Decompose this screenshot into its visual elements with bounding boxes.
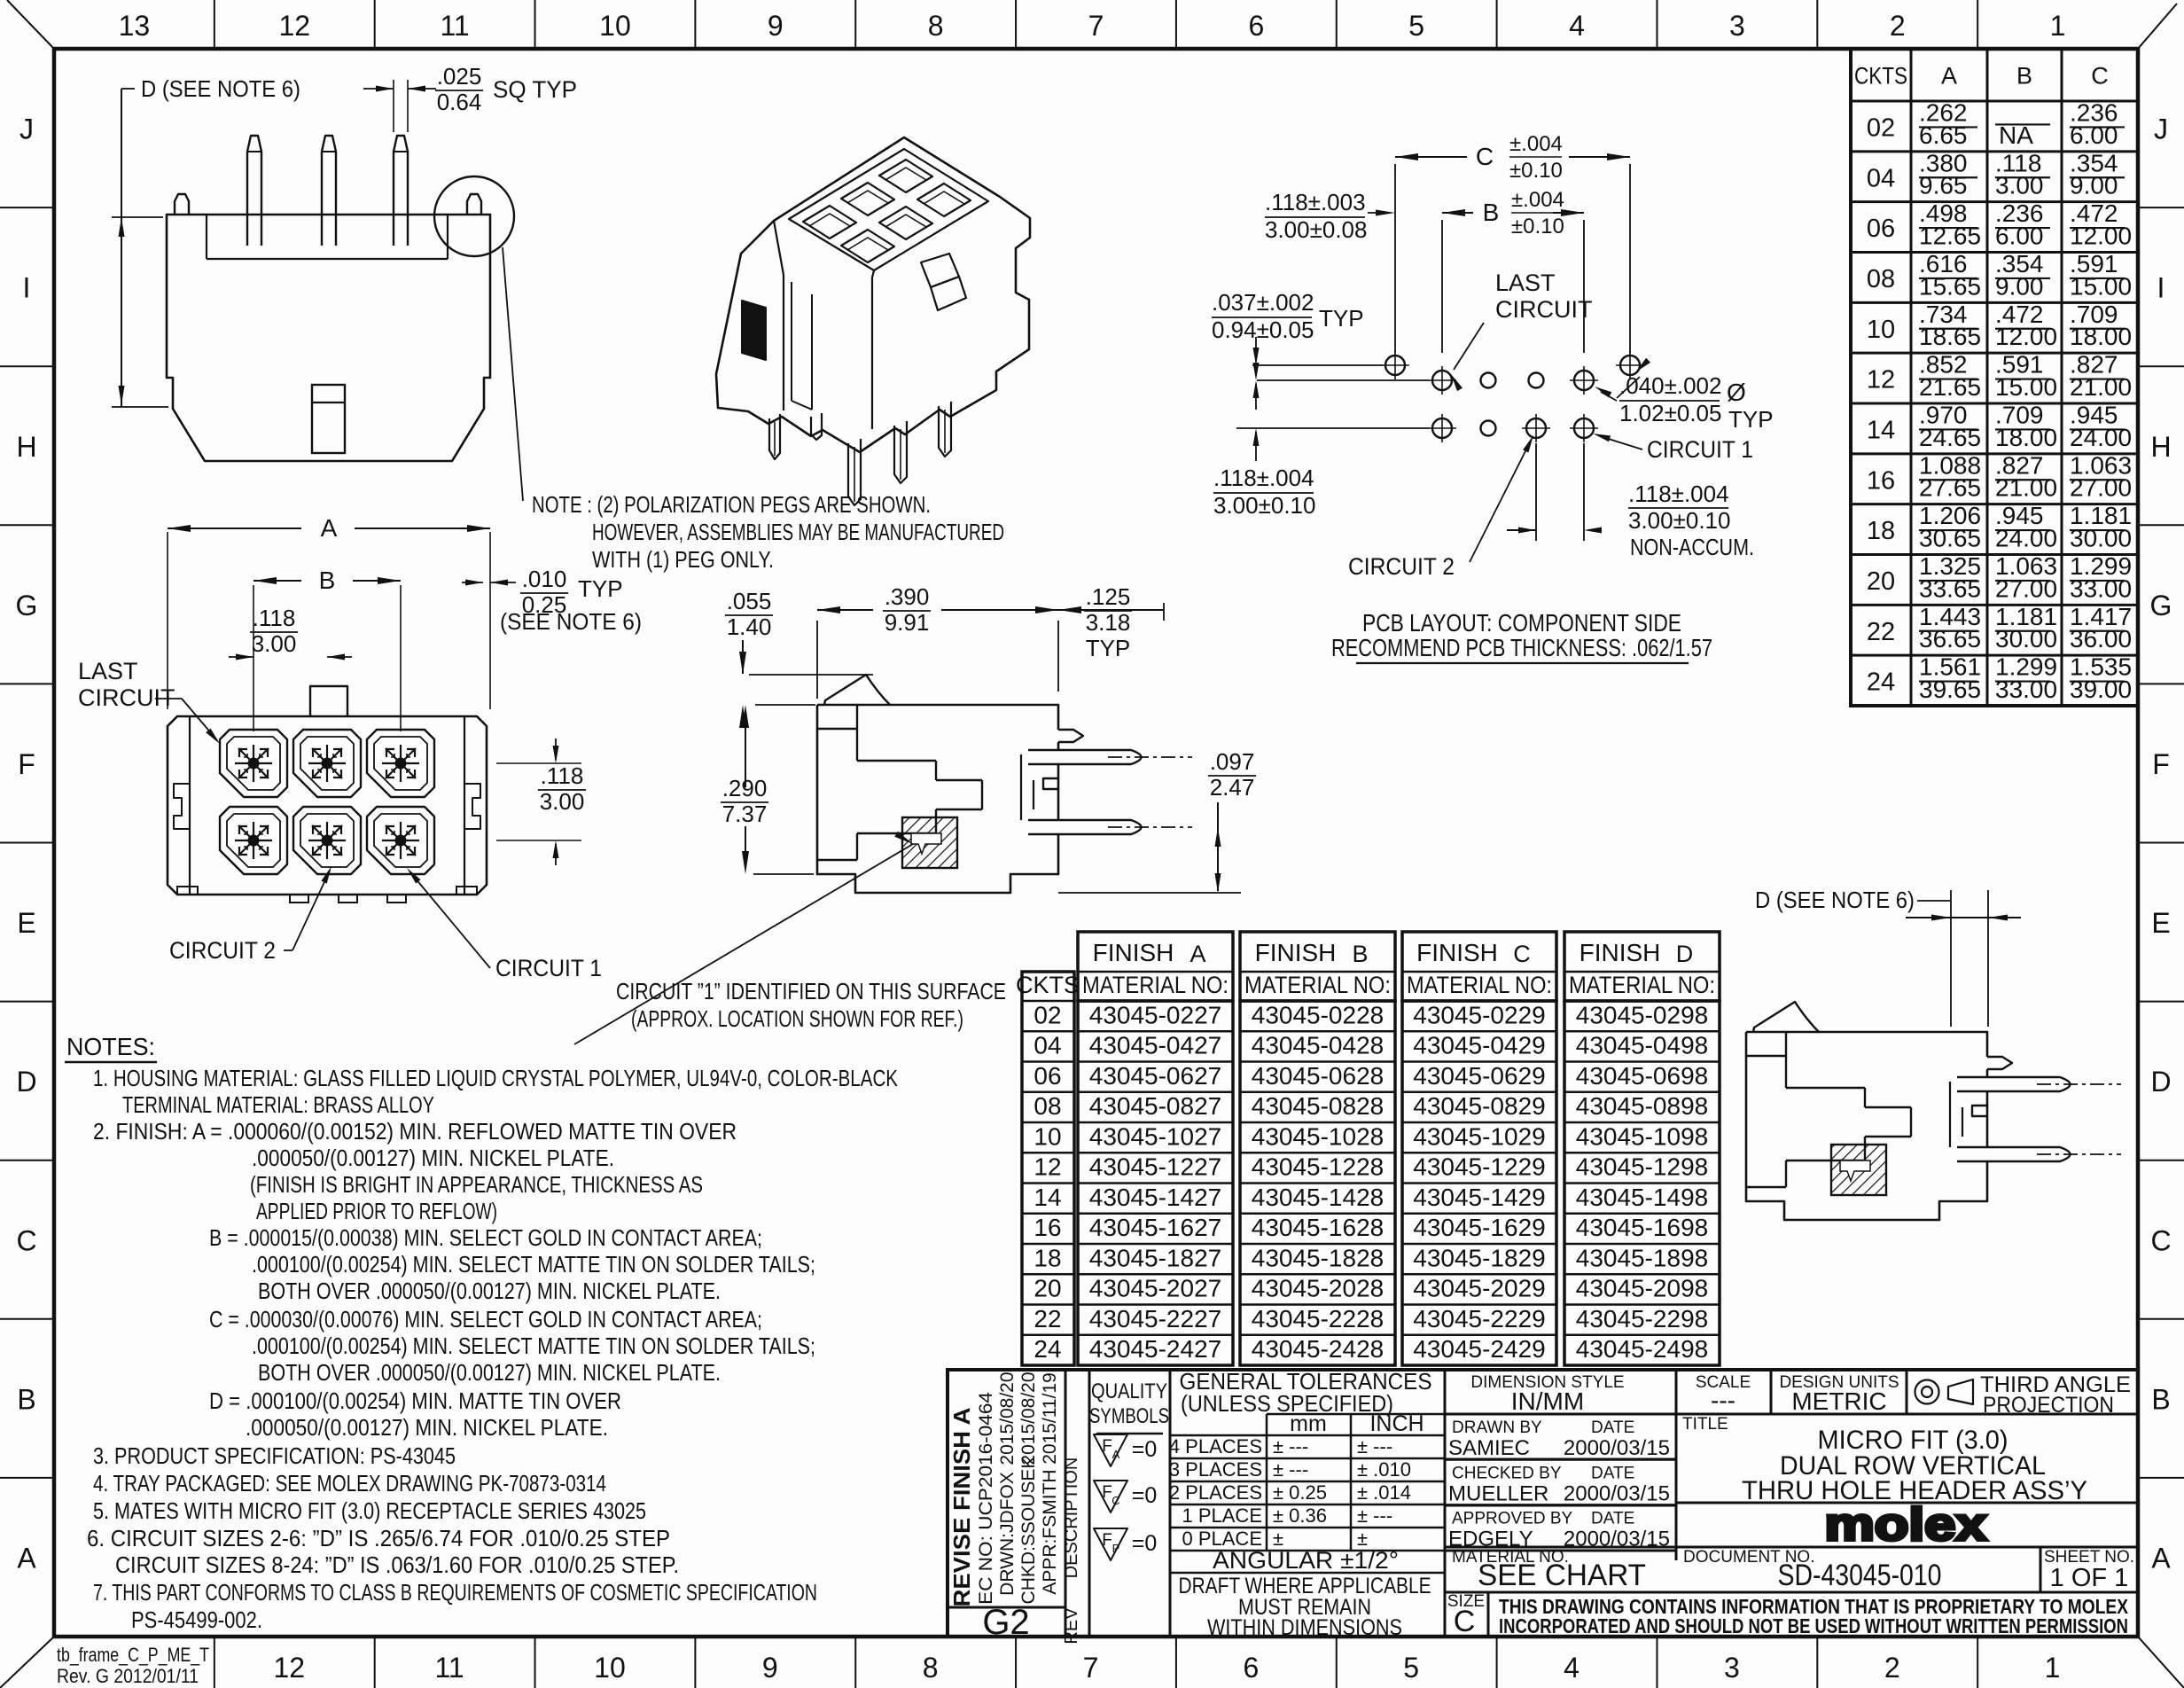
side view hatched circuit-1 block: [1831, 1145, 1886, 1195]
svg-text:± ---: ± ---: [1273, 1435, 1308, 1457]
svg-text:.118±.004: .118±.004: [1213, 465, 1314, 491]
dim B: [1441, 220, 1443, 353]
side view top peg: [1987, 1057, 2012, 1069]
svg-text:30.65: 30.65: [1919, 525, 1981, 552]
svg-text:.097: .097: [1210, 748, 1255, 775]
svg-text:3 PLACES: 3 PLACES: [1169, 1458, 1262, 1481]
svg-text:MATERIAL NO:: MATERIAL NO:: [1244, 972, 1391, 998]
svg-text:20: 20: [1867, 567, 1895, 596]
face view housing: [78, 514, 642, 981]
svg-text:Rev. G 2012/01/11: Rev. G 2012/01/11: [57, 1665, 199, 1687]
svg-text:J: J: [19, 113, 34, 145]
svg-text:SQ TYP: SQ TYP: [493, 76, 577, 103]
svg-text:D (SEE NOTE 6): D (SEE NOTE 6): [1755, 887, 1915, 913]
svg-text:B: B: [17, 1383, 35, 1415]
svg-text:C: C: [1454, 1605, 1476, 1638]
svg-text:6.00: 6.00: [1995, 223, 2044, 250]
svg-text:06: 06: [1867, 215, 1895, 243]
svg-text:.118: .118: [541, 762, 584, 789]
svg-text:D (SEE NOTE 6): D (SEE NOTE 6): [141, 75, 300, 102]
svg-text:1. HOUSING MATERIAL: GLASS F: 1. HOUSING MATERIAL: GLASS FILLED LIQUID…: [93, 1065, 899, 1091]
iso circuit-1 marking block: [742, 301, 766, 360]
svg-text:C: C: [1476, 143, 1494, 170]
svg-text:43045-0298: 43045-0298: [1576, 1001, 1708, 1028]
iso right wall polarization rib: [921, 254, 959, 287]
face view bottom pegs: [290, 895, 308, 903]
svg-text:I: I: [2157, 272, 2165, 304]
svg-text:CIRCUIT SIZES 8-24: ”D” IS .06: CIRCUIT SIZES 8-24: ”D” IS .063/1.60 FOR…: [115, 1551, 679, 1578]
svg-text:43045-2498: 43045-2498: [1576, 1335, 1708, 1363]
svg-text:E: E: [17, 907, 35, 939]
svg-text:2015/11/19: 2015/11/19: [1040, 1372, 1060, 1465]
svg-text:12.00: 12.00: [1995, 323, 2057, 350]
svg-text:C: C: [2091, 63, 2109, 90]
svg-text:CKTS: CKTS: [1854, 63, 1907, 90]
front view center slot: [312, 385, 345, 453]
svg-text:.390: .390: [885, 583, 930, 610]
svg-text:1: 1: [2050, 10, 2066, 42]
svg-text:43045-1098: 43045-1098: [1576, 1122, 1708, 1150]
svg-text:G: G: [16, 590, 38, 621]
svg-text:3.00: 3.00: [1995, 172, 2044, 199]
iso cavity 2,0: [803, 206, 856, 238]
svg-text:43045-1698: 43045-1698: [1576, 1214, 1708, 1241]
svg-text:43045-0228: 43045-0228: [1252, 1001, 1384, 1028]
side view lower pin: [1028, 820, 1142, 834]
pin holes row 1: [1432, 371, 1452, 390]
svg-text:LAST: LAST: [1495, 270, 1556, 296]
svg-text:INCORPORATED AND SHOULD NOT BE: INCORPORATED AND SHOULD NOT BE USED WITH…: [1499, 1614, 2128, 1637]
CKTS A/B/C dimension table: [1851, 49, 2138, 706]
svg-text:A: A: [17, 1542, 36, 1574]
svg-text:± .014: ± .014: [1357, 1481, 1411, 1504]
svg-text:43045-1298: 43045-1298: [1576, 1153, 1708, 1181]
svg-text:CIRCUIT 1: CIRCUIT 1: [495, 955, 602, 981]
svg-text:7: 7: [1083, 1652, 1099, 1684]
svg-text:CIRCUIT ”1” IDENTIFIED ON THIS: CIRCUIT ”1” IDENTIFIED ON THIS SURFACE: [616, 978, 1006, 1004]
svg-text:CHECKED BY: CHECKED BY: [1452, 1464, 1562, 1482]
svg-text:27.00: 27.00: [1995, 574, 2057, 602]
svg-text:1: 1: [2045, 1652, 2061, 1684]
svg-text:CIRCUIT 1: CIRCUIT 1: [1647, 436, 1753, 463]
front view left polarization peg: [175, 194, 189, 215]
svg-text:REV: REV: [1062, 1607, 1081, 1645]
svg-text:.040±.002: .040±.002: [1619, 372, 1721, 399]
svg-text:43045-1029: 43045-1029: [1413, 1122, 1545, 1150]
front view right peg in detail circle: [467, 194, 481, 215]
svg-text:3: 3: [1729, 10, 1745, 42]
svg-text:APPLIED PRIOR TO REFLOW): APPLIED PRIOR TO REFLOW): [256, 1198, 497, 1224]
svg-text:6.00: 6.00: [2070, 121, 2118, 149]
face view dim A: [167, 532, 168, 709]
svg-text:MUELLER: MUELLER: [1448, 1481, 1548, 1505]
svg-text:D: D: [16, 1066, 36, 1098]
svg-text:21.65: 21.65: [1919, 373, 1981, 401]
svg-text:43045-0227: 43045-0227: [1089, 1001, 1221, 1028]
svg-text:6: 6: [1248, 10, 1264, 42]
side view upper pin: [1957, 1077, 2071, 1091]
svg-text:PCB LAYOUT: COMPONENT SIDE: PCB LAYOUT: COMPONENT SIDE: [1362, 609, 1681, 637]
svg-text:08: 08: [1033, 1092, 1061, 1120]
svg-text:SAMIEC: SAMIEC: [1448, 1436, 1530, 1460]
svg-text:2000/03/15: 2000/03/15: [1564, 1481, 1670, 1505]
svg-text:A: A: [1112, 1448, 1120, 1461]
svg-text:08: 08: [1867, 265, 1895, 293]
svg-text:9.91: 9.91: [885, 609, 930, 636]
side view interior lines: [817, 728, 857, 730]
svg-text:43045-1028: 43045-1028: [1252, 1122, 1384, 1150]
side view top peg: [1058, 730, 1083, 742]
svg-text:B: B: [319, 567, 336, 594]
svg-text:LAST: LAST: [78, 658, 138, 684]
svg-text:RECOMMEND PCB THICKNESS: .062/: RECOMMEND PCB THICKNESS: .062/1.57: [1331, 634, 1712, 661]
svg-text:±.004: ±.004: [1511, 188, 1564, 212]
svg-text:4: 4: [1569, 10, 1585, 42]
svg-text:18: 18: [1867, 517, 1895, 545]
iso body silhouette: [716, 137, 1030, 452]
svg-text:43045-1228: 43045-1228: [1252, 1153, 1384, 1181]
svg-text:2. FINISH: A = .000060/(0.0: 2. FINISH: A = .000060/(0.00152) MIN. RE…: [93, 1118, 737, 1145]
svg-text:1.40: 1.40: [727, 613, 772, 640]
svg-text:± ---: ± ---: [1273, 1458, 1308, 1481]
svg-text:12: 12: [278, 10, 310, 42]
svg-text:.118±.004: .118±.004: [1628, 481, 1729, 507]
svg-text:43045-1627: 43045-1627: [1089, 1214, 1221, 1241]
svg-text:33.65: 33.65: [1919, 574, 1981, 602]
svg-text:24.00: 24.00: [1995, 525, 2057, 552]
svg-text:27.00: 27.00: [2070, 474, 2132, 502]
svg-text:9: 9: [768, 10, 784, 42]
svg-text:TYP: TYP: [1728, 406, 1774, 433]
iso cavity 2,1: [841, 230, 894, 262]
svg-text:3.00±0.10: 3.00±0.10: [1628, 507, 1730, 534]
svg-text:18.00: 18.00: [2070, 323, 2132, 350]
svg-text:TITLE: TITLE: [1682, 1415, 1728, 1434]
svg-text:43045-2027: 43045-2027: [1089, 1275, 1221, 1302]
cavity at 369,948: [293, 807, 361, 874]
svg-text:43045-0629: 43045-0629: [1413, 1062, 1545, 1090]
iso top face inner rim: [789, 149, 988, 270]
svg-text:12: 12: [1033, 1153, 1061, 1181]
svg-text:12.65: 12.65: [1919, 223, 1981, 250]
svg-text:43045-0427: 43045-0427: [1089, 1032, 1221, 1059]
svg-text:.125: .125: [1086, 583, 1131, 610]
svg-text:9: 9: [762, 1652, 778, 1684]
svg-text:E: E: [2151, 907, 2170, 939]
svg-text:DRAWN BY: DRAWN BY: [1452, 1418, 1542, 1437]
svg-text:FINISH: FINISH: [1579, 939, 1661, 966]
svg-text:43045-0698: 43045-0698: [1576, 1062, 1708, 1090]
svg-text:G: G: [2150, 590, 2172, 621]
svg-text:43045-0829: 43045-0829: [1413, 1092, 1545, 1120]
side view lower pin: [1957, 1147, 2071, 1161]
svg-text:±0.10: ±0.10: [1509, 159, 1563, 183]
svg-text:METRIC: METRIC: [1791, 1387, 1886, 1415]
svg-text:3.00: 3.00: [540, 788, 585, 815]
svg-text:APPR:FSMITH: APPR:FSMITH: [1040, 1469, 1060, 1594]
svg-text:REVISE FINISH A: REVISE FINISH A: [948, 1407, 975, 1606]
svg-text:43045-1427: 43045-1427: [1089, 1184, 1221, 1211]
svg-text:8: 8: [923, 1652, 939, 1684]
svg-text:7: 7: [1088, 10, 1104, 42]
iso cavity 0,0: [879, 160, 932, 192]
svg-text:36.00: 36.00: [2070, 625, 2132, 653]
svg-text:15.00: 15.00: [2070, 272, 2132, 300]
svg-text:10: 10: [1033, 1122, 1061, 1150]
svg-text:.118±.003: .118±.003: [1265, 189, 1366, 215]
svg-text:± 0.36: ± 0.36: [1273, 1504, 1327, 1527]
svg-text:2: 2: [1884, 1652, 1900, 1684]
svg-text:22: 22: [1867, 618, 1895, 646]
svg-text:3.00: 3.00: [252, 630, 297, 657]
svg-text:3.18: 3.18: [1086, 609, 1131, 636]
svg-text:24: 24: [1867, 668, 1895, 697]
svg-text:ANGULAR ±1/2°: ANGULAR ±1/2°: [1213, 1547, 1399, 1574]
svg-text:DATE: DATE: [1591, 1464, 1634, 1482]
svg-text:43045-2227: 43045-2227: [1089, 1305, 1221, 1332]
dim C: [1394, 164, 1396, 353]
svg-text:15.65: 15.65: [1919, 272, 1981, 300]
svg-text:43045-2098: 43045-2098: [1576, 1275, 1708, 1302]
svg-text:.025: .025: [437, 63, 482, 90]
svg-text:DATE: DATE: [1591, 1418, 1634, 1437]
svg-text:MATERIAL NO:: MATERIAL NO:: [1082, 972, 1228, 998]
svg-text:B: B: [2016, 63, 2032, 90]
right side view with D dimension: [1746, 887, 2121, 1220]
svg-text:0.64: 0.64: [437, 89, 482, 115]
svg-text:43045-1229: 43045-1229: [1413, 1153, 1545, 1181]
svg-text:FINISH: FINISH: [1093, 939, 1174, 966]
svg-text:2 PLACES: 2 PLACES: [1169, 1481, 1262, 1504]
svg-text:TYP: TYP: [1086, 635, 1131, 661]
svg-text:C: C: [1111, 1494, 1119, 1507]
svg-text:10: 10: [1867, 316, 1895, 344]
svg-text:F: F: [18, 748, 35, 780]
svg-text:± 0.25: ± 0.25: [1273, 1481, 1327, 1504]
svg-text:MATERIAL NO:: MATERIAL NO:: [1407, 972, 1552, 998]
svg-text:A: A: [321, 514, 338, 542]
svg-text:---: ---: [1711, 1387, 1735, 1414]
notes block: [65, 1033, 899, 1633]
svg-text:D: D: [2150, 1066, 2171, 1098]
svg-text:D = .000100/(0.00254) MIN. MAT: D = .000100/(0.00254) MIN. MATTE TIN OVE…: [209, 1387, 621, 1414]
svg-text:43045-1629: 43045-1629: [1413, 1214, 1545, 1241]
title block outline: [948, 1370, 2138, 1645]
svg-text:11: 11: [435, 1652, 464, 1684]
svg-text:(APPROX. LOCATION SHOWN FOR RE: (APPROX. LOCATION SHOWN FOR REF.): [631, 1005, 963, 1032]
svg-text:18.65: 18.65: [1919, 323, 1981, 350]
FINISH A/B/C/D material number tables: [1016, 932, 1720, 1365]
front view pins: [247, 136, 261, 246]
iso front latch arm: [792, 282, 812, 410]
svg-text:CIRCUIT: CIRCUIT: [1495, 296, 1593, 323]
svg-text:J: J: [2154, 113, 2168, 145]
svg-text:2.47: 2.47: [1210, 774, 1255, 801]
svg-text:2015/08/20: 2015/08/20: [1018, 1371, 1039, 1465]
svg-text:4: 4: [1564, 1652, 1579, 1684]
svg-text:WITHIN DIMENSIONS: WITHIN DIMENSIONS: [1207, 1615, 1402, 1640]
svg-text:43045-1498: 43045-1498: [1576, 1184, 1708, 1211]
svg-text:± ---: ± ---: [1357, 1435, 1392, 1457]
svg-text:43045-0229: 43045-0229: [1413, 1001, 1545, 1028]
svg-text:± ---: ± ---: [1357, 1504, 1392, 1527]
svg-text:F: F: [2152, 748, 2170, 780]
cavity at 369,861: [293, 730, 361, 797]
leader circuit 1 surface note: [574, 844, 913, 1044]
svg-text:39.00: 39.00: [2070, 676, 2132, 703]
face view dim B: [253, 585, 254, 731]
svg-text:39.65: 39.65: [1919, 676, 1981, 703]
svg-text:6: 6: [1243, 1652, 1259, 1684]
svg-text:NOTES:: NOTES:: [66, 1033, 155, 1060]
svg-text:5: 5: [1403, 1652, 1419, 1684]
svg-text:21.00: 21.00: [1995, 474, 2057, 502]
svg-text:06: 06: [1033, 1062, 1061, 1090]
svg-text:14: 14: [1867, 416, 1895, 444]
svg-text:molex: molex: [1825, 1499, 1987, 1551]
svg-text:11: 11: [441, 10, 470, 42]
svg-text:3.00±0.08: 3.00±0.08: [1265, 216, 1367, 243]
svg-text:=0: =0: [1132, 1483, 1158, 1508]
svg-text:36.65: 36.65: [1919, 625, 1981, 653]
svg-text:MATERIAL NO:: MATERIAL NO:: [1569, 972, 1715, 998]
svg-text:18.00: 18.00: [1995, 424, 2057, 451]
svg-text:22: 22: [1033, 1305, 1061, 1332]
svg-text:=0: =0: [1132, 1437, 1158, 1462]
svg-text:20: 20: [1033, 1275, 1061, 1302]
svg-text:43045-0428: 43045-0428: [1252, 1032, 1384, 1059]
svg-text:43045-2028: 43045-2028: [1252, 1275, 1384, 1302]
svg-text:0.94±0.05: 0.94±0.05: [1212, 316, 1314, 343]
svg-text:4. TRAY PACKAGED: SEE MOLEX: 4. TRAY PACKAGED: SEE MOLEX DRAWING PK-7…: [93, 1470, 606, 1497]
side view housing outline: [817, 705, 1058, 893]
svg-text:2000/03/15: 2000/03/15: [1564, 1436, 1670, 1460]
svg-text:±0.10: ±0.10: [1511, 215, 1564, 238]
side view latch ramp: [1753, 1002, 1819, 1032]
side view latch ramp: [824, 675, 890, 705]
svg-text:A: A: [1189, 941, 1205, 967]
svg-text:43045-2428: 43045-2428: [1252, 1335, 1384, 1363]
svg-text:C: C: [1513, 941, 1531, 967]
svg-text:A: A: [1941, 63, 1957, 90]
svg-text:DATE: DATE: [1591, 1510, 1634, 1528]
drawn/checked/approved + dimension style: [1445, 1370, 2138, 1560]
svg-text:EC NO: UCP2016-0464: EC NO: UCP2016-0464: [976, 1392, 996, 1605]
svg-text:H: H: [2150, 431, 2171, 463]
svg-text:QUALITY: QUALITY: [1091, 1379, 1167, 1403]
svg-text:02: 02: [1867, 113, 1895, 142]
svg-text:1.02±0.05: 1.02±0.05: [1619, 400, 1721, 426]
pin holes row 2: [1432, 418, 1452, 438]
svg-text:16: 16: [1033, 1214, 1061, 1241]
svg-text:TYP: TYP: [578, 575, 623, 602]
section view (middle): [574, 583, 1256, 1044]
svg-text:43045-2229: 43045-2229: [1413, 1305, 1545, 1332]
polarization peg holes: [1385, 356, 1405, 375]
cavity at 452,948: [367, 807, 434, 874]
side view interior lines: [1746, 1055, 1786, 1057]
svg-text:3.00±0.10: 3.00±0.10: [1213, 492, 1315, 519]
svg-text:F: F: [1102, 1437, 1112, 1456]
svg-text:43045-1429: 43045-1429: [1413, 1184, 1545, 1211]
svg-text:4 PLACES: 4 PLACES: [1169, 1435, 1262, 1457]
svg-text:INCH: INCH: [1369, 1411, 1423, 1436]
svg-text:P: P: [1112, 1542, 1120, 1555]
svg-text:D: D: [1676, 941, 1694, 967]
svg-text:12: 12: [273, 1652, 305, 1684]
iso face edges: [783, 275, 784, 410]
face view top latch tab: [310, 686, 347, 716]
svg-text:A: A: [2151, 1542, 2171, 1574]
svg-text:.000100/(0.00254) MIN. SELECT: .000100/(0.00254) MIN. SELECT MATTE TIN …: [252, 1251, 815, 1278]
svg-text:SYMBOLS: SYMBOLS: [1089, 1404, 1169, 1428]
svg-text:43045-1628: 43045-1628: [1252, 1214, 1384, 1241]
svg-text:PROJECTION: PROJECTION: [1983, 1393, 2114, 1418]
svg-text:43045-0498: 43045-0498: [1576, 1032, 1708, 1059]
svg-text:.037±.002: .037±.002: [1212, 289, 1314, 316]
svg-text:04: 04: [1033, 1032, 1061, 1059]
svg-text:CIRCUIT: CIRCUIT: [78, 684, 175, 711]
svg-text:02: 02: [1033, 1001, 1061, 1028]
svg-text:NA: NA: [1999, 121, 2033, 149]
svg-text:18: 18: [1033, 1244, 1061, 1271]
svg-text:43045-0898: 43045-0898: [1576, 1092, 1708, 1120]
front view inner shelf: [206, 215, 207, 259]
svg-text:30.00: 30.00: [2070, 525, 2132, 552]
general tolerances table: [1169, 1368, 1445, 1640]
svg-text:SD-43045-010: SD-43045-010: [1778, 1559, 1942, 1592]
svg-text:SEE CHART: SEE CHART: [1478, 1559, 1646, 1592]
title and molex logo: [1676, 1415, 2138, 1551]
leader to polarization note: [503, 247, 523, 501]
svg-text:Ø: Ø: [1727, 379, 1746, 406]
front view housing (top-left): [112, 63, 1004, 573]
svg-text:16: 16: [1867, 466, 1895, 495]
svg-text:± .010: ± .010: [1357, 1458, 1411, 1481]
svg-text:WITH (1) PEG ONLY.: WITH (1) PEG ONLY.: [592, 546, 774, 573]
svg-text:9.00: 9.00: [2070, 172, 2118, 199]
svg-text:TERMINAL MATERIAL: BRASS ALLO: TERMINAL MATERIAL: BRASS ALLOY: [122, 1091, 434, 1118]
svg-text:CIRCUIT 2: CIRCUIT 2: [169, 937, 276, 964]
svg-text:5. MATES WITH MICRO FIT (3.0): 5. MATES WITH MICRO FIT (3.0) RECEPTACLE…: [93, 1497, 646, 1524]
size C / proprietary note: [1445, 1592, 2138, 1638]
svg-text:tb_frame_C_P_ME_T: tb_frame_C_P_ME_T: [57, 1644, 209, 1666]
svg-text:I: I: [23, 272, 31, 304]
svg-text:43045-0429: 43045-0429: [1413, 1032, 1545, 1059]
svg-text:CHKD:SSOUSEK: CHKD:SSOUSEK: [1018, 1457, 1039, 1605]
svg-text:43045-1828: 43045-1828: [1252, 1244, 1384, 1271]
iso pins: [939, 402, 951, 457]
svg-text:15.00: 15.00: [1995, 373, 2057, 401]
cavity at 452,861: [367, 730, 434, 797]
cavity at 286,948: [220, 807, 287, 874]
svg-text:24: 24: [1033, 1335, 1061, 1363]
svg-text:24.65: 24.65: [1919, 424, 1981, 451]
svg-text:F: F: [1102, 1483, 1112, 1502]
svg-text:DRWN:JDFOX: DRWN:JDFOX: [997, 1472, 1018, 1596]
svg-text:24.00: 24.00: [2070, 424, 2132, 451]
svg-text:DESCRIPTION: DESCRIPTION: [1062, 1457, 1081, 1579]
svg-text:33.00: 33.00: [1995, 676, 2057, 703]
svg-text:NON-ACCUM.: NON-ACCUM.: [1630, 534, 1754, 560]
svg-text:BOTH OVER .000050/(0.00127) MI: BOTH OVER .000050/(0.00127) MIN. NICKEL …: [258, 1359, 721, 1386]
cavity at 286,861: [220, 730, 287, 797]
svg-text:04: 04: [1867, 164, 1895, 192]
svg-text:1 OF 1: 1 OF 1: [2050, 1564, 2129, 1592]
detail circle: [434, 176, 514, 256]
svg-text:.000050/(0.00127) MIN. NICKEL: .000050/(0.00127) MIN. NICKEL PLATE.: [252, 1145, 614, 1171]
svg-text:43045-0628: 43045-0628: [1252, 1062, 1384, 1090]
